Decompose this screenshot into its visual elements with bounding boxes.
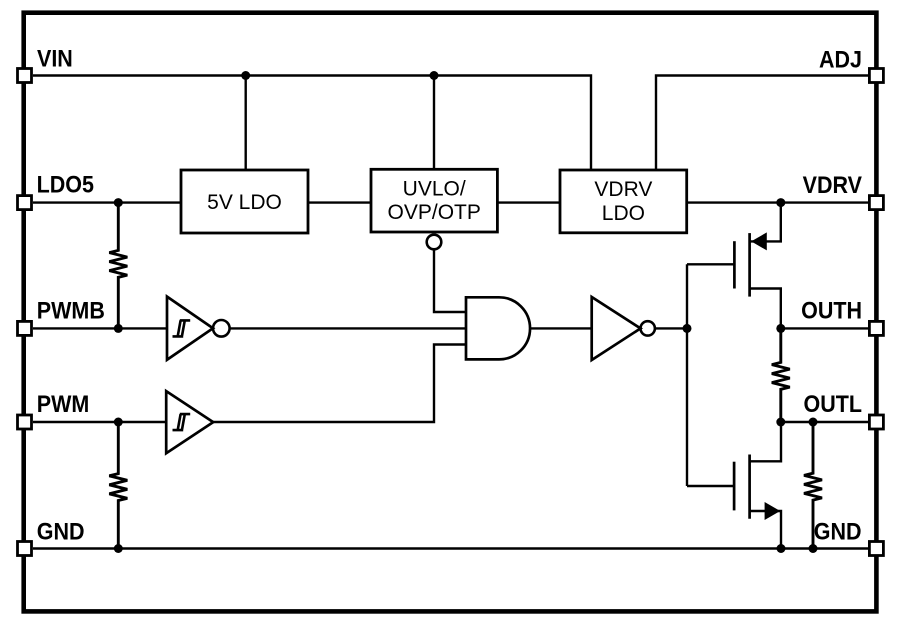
junction PWMB/R1 — [114, 324, 123, 333]
pin GND right square — [869, 542, 883, 556]
AND gate U3 — [466, 297, 530, 359]
wire VIN drop to UVLO — [433, 76, 435, 170]
junction PWM/R2 — [114, 418, 123, 427]
Schmitt inverter U1 triangle — [167, 297, 213, 360]
UVLO output bubble — [427, 235, 442, 250]
transistor Q2 NMOS gate lead — [687, 485, 734, 487]
pin PWMB square — [18, 321, 32, 335]
Schmitt inverter U1 output bubble — [213, 320, 230, 337]
wire PWM input — [33, 421, 166, 423]
wire gate column — [686, 264, 688, 486]
wire 5V LDO to UVLO — [308, 201, 371, 203]
resistor R4 — [804, 422, 822, 549]
wire GND bus — [33, 547, 868, 549]
wire OUTL — [781, 421, 868, 423]
svg-text:LDO5: LDO5 — [37, 170, 95, 198]
svg-text:ADJ: ADJ — [819, 45, 862, 73]
pin LDO5 square — [18, 196, 32, 210]
junction GND/Q2 — [777, 544, 786, 553]
svg-text:GND: GND — [814, 517, 862, 545]
svg-text:LDO: LDO — [602, 202, 645, 225]
junction LDO5/R1 — [114, 198, 123, 207]
block UVLO/OVP/OTP — [371, 169, 497, 232]
transistor Q1 PMOS gate plate — [733, 241, 736, 288]
wire PWMB input — [33, 327, 167, 329]
wire AND output to inverter — [530, 327, 592, 329]
svg-text:GND: GND — [37, 517, 85, 545]
block 5V LDO — [181, 170, 308, 233]
wire inverter output to gate node — [655, 327, 687, 329]
transistor Q1 PMOS source arrow — [751, 232, 767, 250]
junction OUTL/R4 — [809, 418, 818, 427]
svg-text:OVP/OTP: OVP/OTP — [388, 201, 481, 224]
pin OUTH square — [869, 321, 883, 335]
pin PWM square — [18, 415, 32, 429]
junction GND/R2 — [114, 544, 123, 553]
transistor Q2 NMOS source arrow — [765, 502, 781, 520]
svg-text:PWMB: PWMB — [37, 296, 105, 324]
wire VDRV net — [687, 201, 868, 203]
svg-text:VDRV: VDRV — [803, 171, 863, 199]
wire LDO5 to 5V LDO — [33, 201, 181, 203]
junction GND/R4 — [809, 544, 818, 553]
svg-text:VDRV: VDRV — [594, 178, 652, 201]
pin VIN square — [18, 69, 32, 83]
junction gate node — [683, 324, 692, 333]
transistor Q2 NMOS channel — [748, 455, 751, 519]
wire VIN net horizontal to VDRV LDO drop — [33, 76, 591, 171]
wire UVLO to VDRV LDO — [497, 201, 560, 203]
transistor Q1 PMOS channel — [748, 233, 751, 297]
transistor Q2 NMOS drain lead — [750, 422, 781, 461]
wire ADJ net — [656, 76, 868, 171]
pin OUTL square — [869, 415, 883, 429]
wire UVLO output to AND top input — [434, 249, 466, 312]
transistor Q1 PMOS gate lead — [687, 263, 734, 265]
wire U2 output to AND bottom input — [213, 345, 466, 423]
pin ADJ square — [869, 69, 883, 83]
wire VIN drop to 5V LDO — [244, 76, 246, 171]
svg-text:5V LDO: 5V LDO — [207, 191, 282, 214]
wire OUTH — [781, 327, 868, 329]
pin GND left square — [18, 542, 32, 556]
svg-text:OUTL: OUTL — [803, 390, 862, 418]
junction VDRV/Q1 — [776, 198, 785, 207]
junction VIN/5VLDO — [241, 71, 250, 80]
Schmitt buffer U2 triangle — [166, 391, 213, 453]
junction OUTL/R3 — [776, 418, 785, 427]
pin VDRV square — [869, 196, 883, 210]
junction VIN/UVLO — [430, 71, 439, 80]
transistor Q2 NMOS gate plate — [733, 462, 736, 511]
wire U1 output to AND middle input — [230, 327, 466, 329]
junction OUTH — [776, 324, 785, 333]
transistor Q2 NMOS source lead — [750, 511, 781, 549]
svg-text:PWM: PWM — [37, 390, 90, 418]
transistor Q1 PMOS drain lead — [750, 289, 781, 329]
resistor R1 — [109, 203, 127, 329]
transistor Q1 PMOS source lead — [750, 203, 781, 242]
Schmitt inverter U1 hysteresis mark — [173, 320, 191, 336]
resistor R2 — [109, 422, 127, 549]
resistor R3 — [772, 328, 790, 422]
Schmitt buffer U2 hysteresis mark — [173, 414, 191, 430]
svg-text:OUTH: OUTH — [801, 296, 862, 324]
inverter U4 output bubble — [641, 321, 655, 335]
block VDRV LDO — [560, 170, 687, 233]
svg-text:VIN: VIN — [37, 44, 73, 72]
svg-text:UVLO/: UVLO/ — [403, 178, 466, 201]
inverter U4 triangle — [592, 297, 641, 360]
